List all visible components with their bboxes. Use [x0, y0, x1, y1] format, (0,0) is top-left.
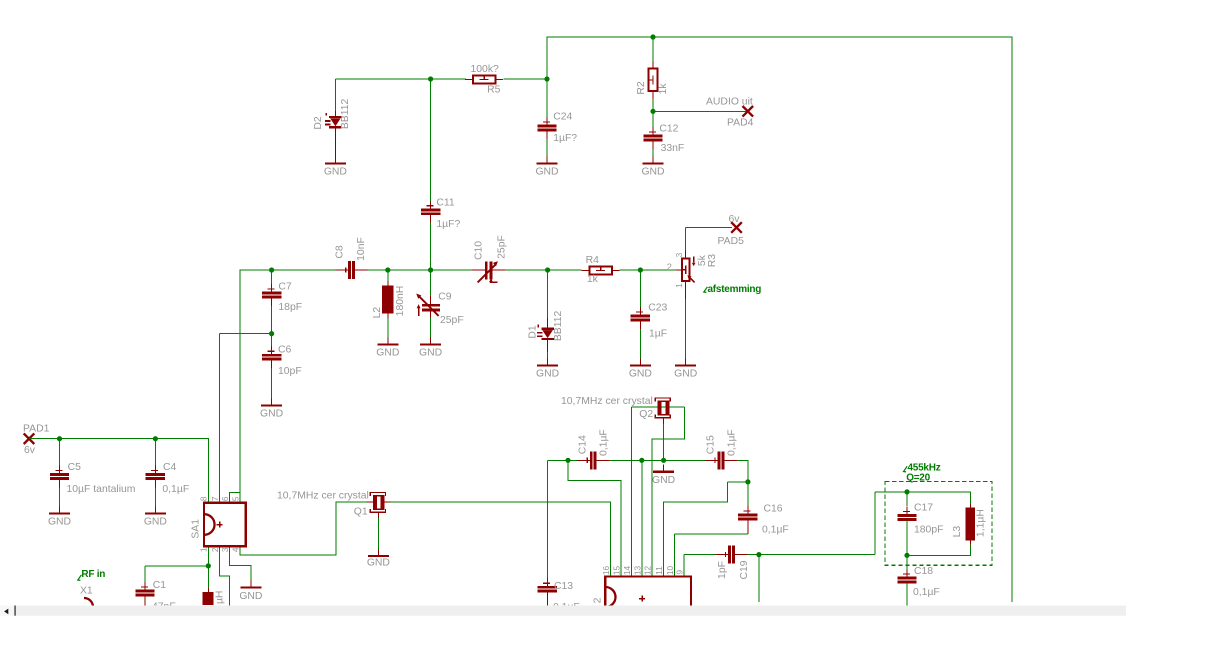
- svg-text:2: 2: [210, 547, 220, 552]
- svg-text:C8: C8: [334, 245, 345, 259]
- svg-text:BB112: BB112: [340, 98, 351, 129]
- svg-text:15: 15: [611, 566, 621, 576]
- svg-text:33nF: 33nF: [661, 143, 685, 154]
- svg-text:10nF: 10nF: [356, 237, 367, 261]
- svg-text:1k: 1k: [658, 83, 669, 95]
- svg-text:0,1µF: 0,1µF: [913, 587, 940, 598]
- svg-text:C12: C12: [659, 124, 678, 135]
- svg-text:10: 10: [665, 566, 675, 576]
- svg-text:0,1µF: 0,1µF: [726, 429, 737, 456]
- svg-text:1µF: 1µF: [649, 329, 667, 340]
- svg-text:GND: GND: [239, 591, 262, 602]
- svg-text:C14: C14: [578, 435, 589, 454]
- svg-text:180pF: 180pF: [914, 524, 943, 535]
- svg-text:10,7MHz cer crystal: 10,7MHz cer crystal: [277, 491, 369, 502]
- svg-text:GND: GND: [674, 369, 697, 380]
- svg-text:2: 2: [592, 597, 603, 603]
- svg-text:0,1µF: 0,1µF: [762, 524, 789, 535]
- svg-text:AUDIO uit: AUDIO uit: [706, 97, 753, 108]
- svg-text:0,1µF: 0,1µF: [162, 484, 189, 495]
- svg-text:8: 8: [199, 496, 209, 501]
- svg-text:9: 9: [674, 570, 684, 575]
- svg-text:C11: C11: [436, 198, 455, 209]
- svg-text:6: 6: [220, 496, 230, 501]
- svg-text:R2: R2: [636, 81, 647, 95]
- svg-text:GND: GND: [641, 167, 664, 178]
- svg-text:D2: D2: [313, 116, 324, 130]
- svg-text:5: 5: [231, 496, 241, 501]
- svg-text:µH: µH: [215, 591, 226, 605]
- svg-text:R4: R4: [586, 255, 600, 266]
- svg-text:3: 3: [674, 252, 684, 257]
- svg-text:C1: C1: [153, 580, 167, 591]
- svg-text:C23: C23: [648, 303, 667, 314]
- svg-text:R5: R5: [487, 85, 501, 96]
- svg-text:3: 3: [220, 547, 230, 552]
- svg-text:16: 16: [601, 566, 611, 576]
- svg-text:C7: C7: [278, 282, 292, 293]
- svg-text:C13: C13: [554, 581, 573, 592]
- svg-text:C19: C19: [739, 560, 750, 579]
- svg-text:C15: C15: [705, 435, 716, 454]
- svg-text:10µF tantalium: 10µF tantalium: [67, 484, 136, 495]
- svg-text:PAD4: PAD4: [727, 118, 754, 129]
- svg-text:1: 1: [674, 283, 684, 288]
- svg-text:6v: 6v: [729, 214, 741, 225]
- svg-text:C5: C5: [68, 462, 82, 473]
- svg-text:1µF?: 1µF?: [553, 133, 577, 144]
- svg-text:C24: C24: [553, 111, 572, 122]
- svg-text:GND: GND: [535, 167, 558, 178]
- svg-text:Q1: Q1: [354, 507, 368, 518]
- svg-text:GND: GND: [629, 369, 652, 380]
- svg-text:C18: C18: [914, 566, 933, 577]
- svg-text:1: 1: [199, 547, 209, 552]
- svg-text:PAD5: PAD5: [718, 236, 745, 247]
- svg-text:12: 12: [643, 566, 653, 576]
- svg-text:D1: D1: [527, 325, 538, 339]
- svg-text:C16: C16: [764, 504, 783, 515]
- svg-text:1k: 1k: [587, 274, 599, 285]
- svg-text:Q2: Q2: [639, 409, 653, 420]
- svg-text:L2: L2: [372, 307, 383, 319]
- svg-text:11: 11: [654, 566, 664, 575]
- svg-text:L3: L3: [952, 526, 963, 538]
- svg-text:PAD1: PAD1: [23, 424, 50, 435]
- svg-text:GND: GND: [324, 167, 347, 178]
- svg-text:18pF: 18pF: [278, 302, 302, 313]
- svg-text:2: 2: [667, 262, 672, 272]
- svg-text:C10: C10: [474, 241, 485, 260]
- svg-text:7: 7: [210, 496, 220, 501]
- svg-text:SA1: SA1: [191, 519, 202, 539]
- svg-text:1pF: 1pF: [717, 561, 728, 579]
- svg-text:BB112: BB112: [553, 310, 564, 341]
- svg-text:C6: C6: [278, 345, 292, 356]
- svg-text:25pF: 25pF: [440, 315, 464, 326]
- svg-text:100k?: 100k?: [471, 64, 500, 75]
- svg-text:RF in: RF in: [81, 569, 105, 580]
- svg-text:C9: C9: [438, 291, 452, 302]
- svg-text:GND: GND: [144, 517, 167, 528]
- svg-text:10pF: 10pF: [278, 366, 302, 377]
- svg-text:GND: GND: [536, 369, 559, 380]
- svg-text:C17: C17: [914, 503, 933, 514]
- svg-text:X1: X1: [80, 586, 93, 597]
- svg-text:13: 13: [632, 566, 642, 576]
- svg-text:1,1µH: 1,1µH: [976, 509, 987, 537]
- svg-text:6v: 6v: [24, 445, 36, 456]
- svg-text:25pF: 25pF: [496, 235, 507, 259]
- svg-text:C4: C4: [163, 462, 177, 473]
- svg-text:GND: GND: [48, 517, 71, 528]
- svg-text:180nH: 180nH: [395, 286, 406, 317]
- svg-text:GND: GND: [367, 557, 390, 568]
- svg-text:GND: GND: [419, 348, 442, 359]
- svg-text:1µF?: 1µF?: [436, 219, 460, 230]
- svg-text:10,7MHz cer crystal: 10,7MHz cer crystal: [561, 396, 653, 407]
- svg-text:14: 14: [622, 566, 632, 576]
- svg-text:afstemming: afstemming: [708, 284, 762, 295]
- svg-text:GND: GND: [376, 348, 399, 359]
- svg-text:4: 4: [231, 547, 241, 552]
- svg-text:R3: R3: [707, 254, 718, 268]
- svg-text:0,1µF: 0,1µF: [598, 429, 609, 456]
- svg-text:Q=20: Q=20: [906, 473, 930, 484]
- svg-text:GND: GND: [652, 475, 675, 486]
- svg-text:GND: GND: [260, 409, 283, 420]
